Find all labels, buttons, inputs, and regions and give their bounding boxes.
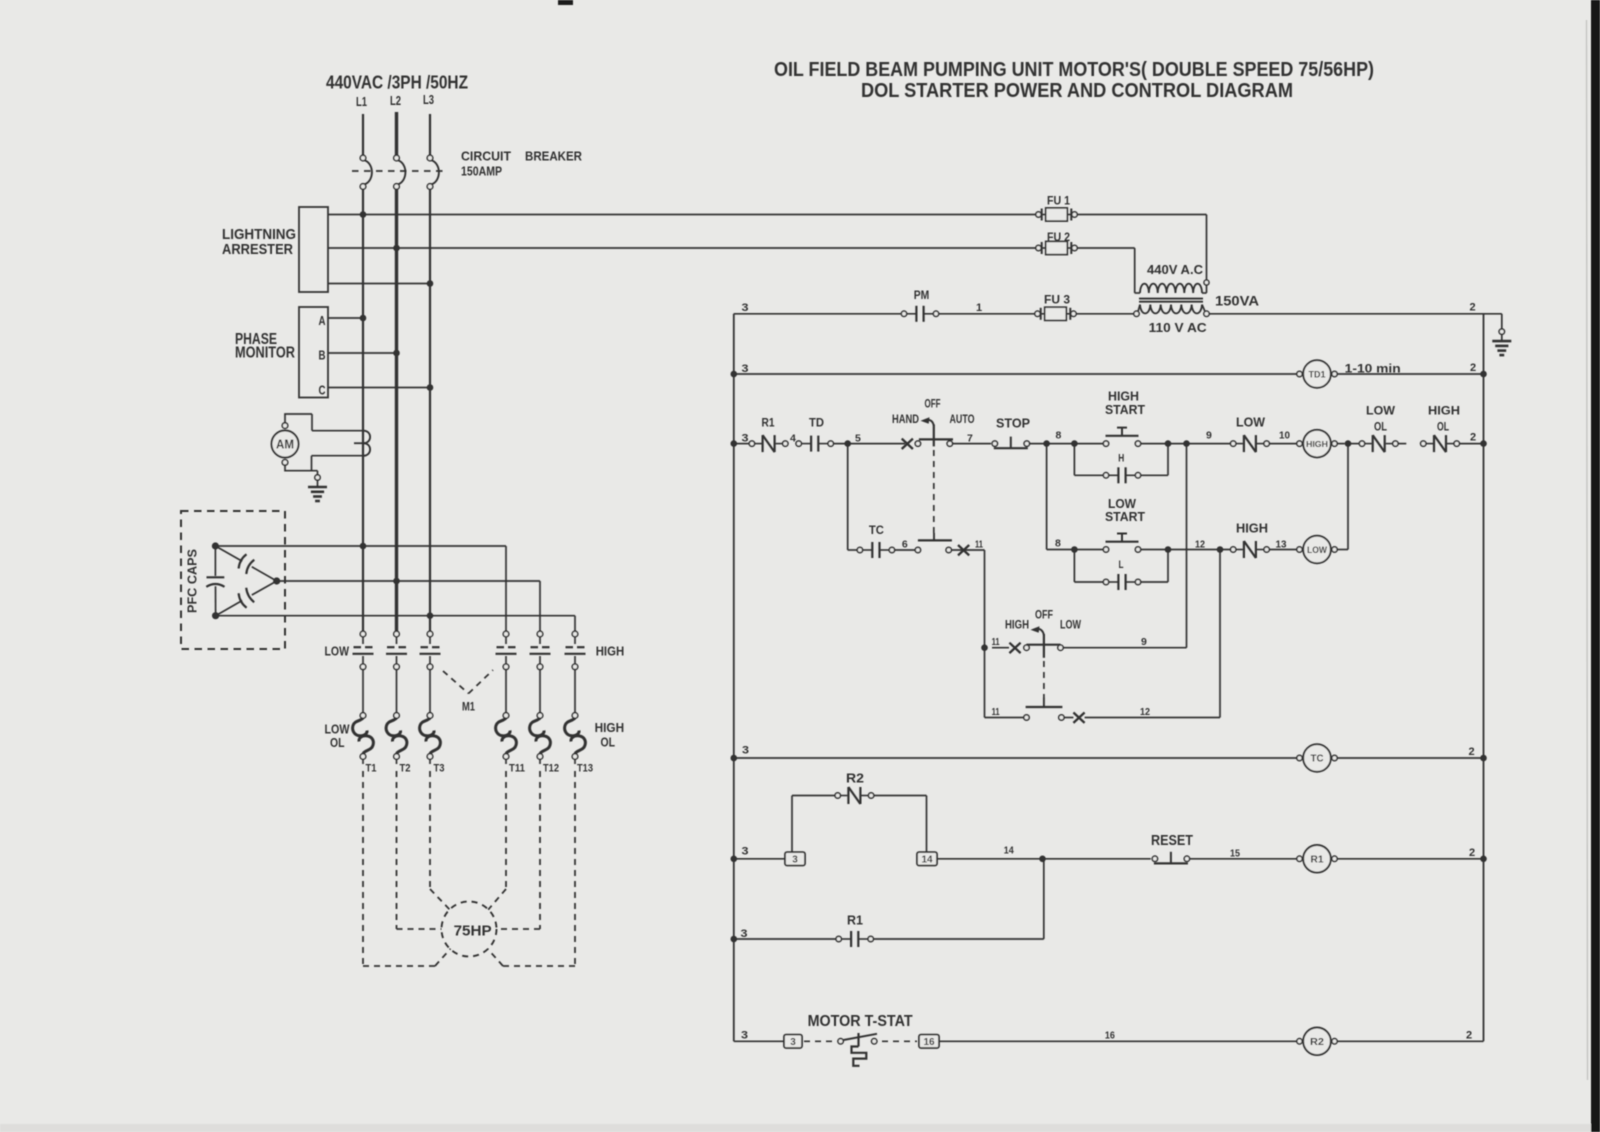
junction lower selector node 11 xyxy=(981,636,1000,651)
svg-text:2: 2 xyxy=(1466,1030,1472,1042)
svg-text:75HP: 75HP xyxy=(454,922,492,939)
wire FU3 to transformer secondary xyxy=(1076,313,1134,315)
thermostat contact xyxy=(838,1033,877,1066)
wire selector low row to node 12 riser xyxy=(1064,550,1220,719)
label 3 main rung xyxy=(731,433,749,447)
lightning arrester box xyxy=(299,207,328,292)
contact TD NO xyxy=(796,416,833,452)
svg-text:FU 3: FU 3 xyxy=(1044,293,1070,307)
svg-text:2: 2 xyxy=(1469,746,1475,758)
wire phase L3 incoming xyxy=(429,114,431,155)
svg-text:PM: PM xyxy=(914,288,930,302)
contact R2 NC xyxy=(835,771,874,805)
wire arrester line 3 to L3 xyxy=(328,283,430,285)
phase monitor pin B xyxy=(319,348,400,363)
svg-text:2: 2 xyxy=(1470,362,1476,374)
wire dashed box3 to t-stat xyxy=(804,1040,833,1042)
label L2 xyxy=(390,93,401,108)
label 3 rung R1 xyxy=(731,846,749,863)
wire TC rung corner down xyxy=(951,550,984,648)
svg-text:DOL STARTER POWER AND CONTROL: DOL STARTER POWER AND CONTROL DIAGRAM xyxy=(861,79,1293,102)
junction PFC top bus at L1 xyxy=(360,543,367,550)
pushbutton RESET xyxy=(1151,832,1193,864)
wire drop from node 8 to low start rung xyxy=(1047,444,1104,553)
wire selector to STOP node 7 xyxy=(947,433,991,447)
wire rail corner to box 3 xyxy=(734,1040,784,1042)
junction PFC mid bus at L2 xyxy=(393,578,400,585)
terminal box 16 xyxy=(919,1035,939,1049)
wire phase L1 to contactor xyxy=(362,189,364,631)
svg-text:ARRESTER: ARRESTER xyxy=(222,241,293,258)
wire FU2 to transformer primary left xyxy=(1077,248,1135,293)
coil R1 xyxy=(1297,845,1337,873)
label 110 V AC xyxy=(1149,321,1207,335)
wire motor lead T1 xyxy=(363,771,451,966)
svg-text:2: 2 xyxy=(1470,302,1476,314)
circuit breaker pole 1 xyxy=(360,155,372,189)
label T2 xyxy=(400,763,411,775)
label 150VA xyxy=(1215,294,1259,309)
contact H NO xyxy=(1103,453,1140,484)
svg-text:HIGH: HIGH xyxy=(1236,521,1268,536)
label LIGHTNING ARRESTER xyxy=(222,226,296,258)
selector contact X low row xyxy=(1073,713,1084,723)
svg-text:440V A.C: 440V A.C xyxy=(1147,263,1203,277)
svg-text:3: 3 xyxy=(742,745,749,757)
contact L NO xyxy=(1103,559,1140,590)
selector contact X node 11 xyxy=(958,539,983,556)
label 1-10 min xyxy=(1345,362,1401,376)
wire motor lead T2 xyxy=(397,771,442,929)
wire R2 branch left riser xyxy=(792,796,835,853)
wire HIGH OL to right rail node 2 xyxy=(1459,432,1486,447)
phase monitor box xyxy=(299,307,328,398)
wire PFC mid bus to column 5 xyxy=(277,581,540,631)
contactor M1 dashed linkage xyxy=(443,670,493,694)
capacitor PFC upper diagonal xyxy=(215,546,276,581)
terminal box 3 xyxy=(785,852,805,866)
contact R1 NC xyxy=(749,416,788,453)
wire R2 coil to right rail xyxy=(1337,1030,1483,1042)
svg-text:12: 12 xyxy=(1140,706,1150,718)
selector low row T-bar xyxy=(985,698,1065,721)
wire between OL contacts xyxy=(1398,443,1406,445)
svg-text:R1: R1 xyxy=(762,416,775,430)
svg-text:R1: R1 xyxy=(1311,854,1324,865)
svg-text:14: 14 xyxy=(1004,845,1014,857)
wire FU1 to transformer primary right xyxy=(1077,215,1206,281)
PFC CAPS dashed box xyxy=(181,511,285,649)
wire rail to PM contact xyxy=(734,313,901,315)
label 3 rung R1 contact xyxy=(731,928,748,942)
wire phase L2 to contactor xyxy=(395,189,398,631)
label CIRCUIT BREAKER 150AMP xyxy=(461,149,583,179)
node PFC top xyxy=(212,542,219,549)
label L3 xyxy=(423,92,434,107)
label 3 rung TD1 xyxy=(731,363,749,377)
contact HIGH NC interlock xyxy=(1231,521,1270,559)
svg-text:9: 9 xyxy=(1206,430,1212,442)
wire HIGH coil to LOW OL xyxy=(1337,440,1359,447)
right control rail xyxy=(1483,314,1485,1042)
wire phase L1 incoming xyxy=(362,114,364,155)
svg-text:10: 10 xyxy=(1279,430,1290,442)
label 2 rung TD1 xyxy=(1470,362,1487,377)
fuse FU3 xyxy=(1035,293,1076,321)
terminal box 3 bottom xyxy=(784,1035,802,1049)
wire rail to terminal box 3 xyxy=(734,858,785,860)
label M1 xyxy=(462,700,475,714)
label L1 xyxy=(356,94,367,109)
svg-text:2: 2 xyxy=(1470,432,1476,444)
svg-text:1: 1 xyxy=(976,302,982,314)
svg-text:440VAC /3PH /50HZ: 440VAC /3PH /50HZ xyxy=(326,73,468,93)
label T11 xyxy=(509,763,525,775)
wire rail to TD1 coil xyxy=(734,373,1300,375)
label 4 xyxy=(790,433,796,445)
label HAND OFF AUTO xyxy=(892,399,975,427)
svg-text:TC: TC xyxy=(869,523,884,537)
contact LOW NC interlock xyxy=(1231,415,1270,453)
wire arrester line 1 to FU1 xyxy=(328,214,1036,216)
svg-text:TC: TC xyxy=(1311,754,1324,765)
ammeter AM xyxy=(272,423,299,465)
svg-text:HIGH: HIGH xyxy=(1005,620,1029,632)
svg-text:AM: AM xyxy=(276,438,294,452)
svg-text:C: C xyxy=(319,383,326,398)
svg-text:8: 8 xyxy=(1055,538,1061,550)
svg-text:LOW: LOW xyxy=(1366,404,1396,418)
coil R2 xyxy=(1297,1028,1337,1056)
svg-text:T3: T3 xyxy=(434,763,445,775)
svg-text:START: START xyxy=(1105,402,1145,417)
svg-text:LOW: LOW xyxy=(1307,545,1327,555)
label T3 xyxy=(434,763,445,775)
svg-text:A: A xyxy=(319,313,326,328)
title line 2 xyxy=(861,79,1293,102)
wire PFC bottom bus to column 6 xyxy=(216,616,575,632)
svg-text:R1: R1 xyxy=(847,913,863,928)
wire node 13 to LOW coil xyxy=(1269,539,1297,551)
current transformer on L1 xyxy=(354,431,370,456)
svg-text:3: 3 xyxy=(742,302,749,314)
wire R1 contact rise to node 14 xyxy=(873,859,1043,939)
svg-text:MOTOR T-STAT: MOTOR T-STAT xyxy=(808,1013,913,1030)
label PFC CAPS vertical xyxy=(185,549,200,613)
label LOW contactor xyxy=(325,644,350,659)
label T12 xyxy=(543,763,559,775)
wire PM to FU3 node 1 xyxy=(939,302,1036,314)
svg-text:14: 14 xyxy=(921,855,933,866)
svg-text:11: 11 xyxy=(992,706,1000,718)
svg-text:PFC CAPS: PFC CAPS xyxy=(185,549,200,613)
wire selector high row to node 9 riser xyxy=(1063,444,1186,648)
junction PFC bottom bus at L3 xyxy=(427,612,434,619)
junction L2 line2 xyxy=(393,245,400,252)
svg-text:OL: OL xyxy=(330,735,345,750)
pushbutton HIGH START NO xyxy=(1103,389,1145,447)
contact TC NO xyxy=(857,523,894,558)
capacitor PFC lower diagonal xyxy=(216,581,277,616)
svg-text:3: 3 xyxy=(742,846,749,858)
wire motor lead T13 xyxy=(488,771,576,966)
wire arrester line 2 to FU2 xyxy=(328,247,1036,249)
svg-text:2: 2 xyxy=(1469,847,1475,859)
wire drop node 5 to TC contact xyxy=(848,444,858,550)
svg-text:LOW: LOW xyxy=(325,644,350,659)
wire motor lead T3 xyxy=(430,771,450,910)
svg-text:11: 11 xyxy=(992,636,1000,648)
svg-text:1-10 min: 1-10 min xyxy=(1345,362,1401,376)
wire rail to R1 contact xyxy=(734,443,749,445)
circuit breaker linkage dashed xyxy=(352,170,447,172)
svg-text:T13: T13 xyxy=(577,763,593,775)
svg-text:L2: L2 xyxy=(390,93,401,108)
wire LOW coil rise to HIGH coil output xyxy=(1337,444,1348,550)
svg-text:OL: OL xyxy=(1374,420,1387,434)
svg-text:8: 8 xyxy=(1056,430,1062,442)
label T1 xyxy=(366,763,377,775)
contactor pole T2 column x=396.5 xyxy=(386,631,407,764)
selector contact X high row xyxy=(992,643,1021,653)
svg-text:12: 12 xyxy=(1195,539,1205,551)
contactor pole T12 column x=540 xyxy=(530,631,551,764)
left control rail xyxy=(733,314,735,1042)
fuse FU1 xyxy=(1036,194,1077,222)
svg-text:MONITOR: MONITOR xyxy=(235,345,295,362)
label HIGH OFF LOW lower selector xyxy=(1005,610,1081,632)
wire HIGH START to node 9 xyxy=(1141,430,1231,447)
svg-text:LOW: LOW xyxy=(1060,620,1081,632)
wire rail to control ground xyxy=(1484,314,1502,329)
svg-text:16: 16 xyxy=(923,1037,935,1048)
label 440VAC /3PH /50HZ xyxy=(326,73,468,93)
transformer secondary winding 110V xyxy=(1134,305,1209,317)
svg-text:4: 4 xyxy=(790,433,796,445)
wire H branch drop xyxy=(1074,444,1103,476)
svg-text:110 V AC: 110 V AC xyxy=(1149,321,1207,335)
svg-text:OL: OL xyxy=(601,735,616,750)
svg-text:TD1: TD1 xyxy=(1309,370,1327,381)
node PFC right xyxy=(273,577,280,584)
wire CT bottom return xyxy=(312,456,364,472)
contact R1 NO xyxy=(836,913,873,948)
svg-text:STOP: STOP xyxy=(996,416,1030,431)
transformer primary winding xyxy=(1135,280,1209,293)
svg-text:7: 7 xyxy=(967,433,973,445)
svg-text:3: 3 xyxy=(742,433,749,445)
wire TD1 to right rail xyxy=(1337,373,1483,375)
label 3 rung PM xyxy=(742,302,749,314)
svg-text:R2: R2 xyxy=(1310,1037,1324,1048)
wire STOP to node 8 xyxy=(1030,430,1104,447)
wire H branch rise xyxy=(1141,444,1168,476)
svg-text:HAND: HAND xyxy=(892,414,919,426)
svg-text:15: 15 xyxy=(1230,848,1240,860)
phase monitor pin A xyxy=(319,313,367,328)
svg-text:3: 3 xyxy=(741,1030,748,1042)
svg-text:16: 16 xyxy=(1105,1030,1115,1042)
wire node 10 to HIGH coil xyxy=(1269,430,1297,444)
svg-text:CIRCUIT: CIRCUIT xyxy=(461,149,511,164)
svg-text:T2: T2 xyxy=(400,763,411,775)
capacitor PFC left xyxy=(206,546,224,616)
svg-text:AUTO: AUTO xyxy=(950,414,975,426)
svg-text:150AMP: 150AMP xyxy=(461,164,502,179)
wire rail to R1 contact xyxy=(734,938,836,940)
contact PM xyxy=(901,288,938,322)
coil LOW xyxy=(1297,536,1337,564)
svg-text:5: 5 xyxy=(855,433,861,445)
coil HIGH xyxy=(1297,430,1337,458)
svg-text:HIGH: HIGH xyxy=(595,720,625,735)
wire TD to node 5 xyxy=(833,433,905,447)
svg-text:HIGH: HIGH xyxy=(1306,439,1328,449)
svg-text:R2: R2 xyxy=(846,771,864,786)
wire LOW START to node 12 xyxy=(1141,539,1231,553)
svg-text:L3: L3 xyxy=(423,92,434,107)
svg-text:START: START xyxy=(1105,509,1145,524)
wire motor lead T12 xyxy=(497,771,541,929)
wire R2 branch right riser xyxy=(874,796,927,853)
label 440V A.C xyxy=(1147,263,1203,277)
terminal box 14 xyxy=(917,852,937,866)
svg-text:T11: T11 xyxy=(509,763,525,775)
svg-text:LOW: LOW xyxy=(1236,415,1266,430)
wire L branch rise xyxy=(1141,550,1168,583)
title line 1 xyxy=(774,58,1374,81)
svg-text:HIGH: HIGH xyxy=(596,644,625,659)
svg-text:OFF: OFF xyxy=(925,399,941,411)
label 3 rung R2 xyxy=(741,1030,748,1042)
wire phase L3 to contactor xyxy=(429,189,431,631)
ground control transformer xyxy=(1492,329,1511,355)
svg-text:L1: L1 xyxy=(356,94,367,109)
contactor pole T3 column x=430 xyxy=(420,631,441,764)
selector T-bar auto position xyxy=(915,533,952,553)
label HIGH OL xyxy=(595,720,625,750)
wire TC coil to right rail xyxy=(1337,746,1487,761)
timer coil TD1 xyxy=(1297,360,1337,388)
selector contact HAND X xyxy=(902,439,921,449)
svg-text:9: 9 xyxy=(1141,636,1147,648)
pushbutton LOW START NO xyxy=(1103,496,1145,552)
junction L3 line3 xyxy=(427,280,434,287)
pushbutton STOP NC xyxy=(992,416,1030,449)
wire R1 coil to right rail xyxy=(1337,847,1487,862)
transformer core xyxy=(1139,299,1203,302)
svg-text:OIL FIELD BEAM PUMPING UNIT MO: OIL FIELD BEAM PUMPING UNIT MOTOR'S( DOU… xyxy=(774,58,1374,81)
svg-text:M1: M1 xyxy=(462,700,475,714)
svg-text:T1: T1 xyxy=(366,763,377,775)
contact LOW OL NC xyxy=(1359,404,1398,453)
svg-text:150VA: 150VA xyxy=(1215,294,1259,309)
fuse FU2 xyxy=(1036,230,1077,255)
wire secondary to right rail node 2 xyxy=(1209,302,1483,314)
svg-text:HIGH: HIGH xyxy=(1428,404,1460,418)
svg-text:L: L xyxy=(1119,559,1124,571)
node PFC bottom xyxy=(212,612,219,619)
label PHASE MONITOR xyxy=(235,331,295,362)
svg-text:B: B xyxy=(319,348,326,363)
junction L1 line1 xyxy=(360,211,367,218)
svg-text:OFF: OFF xyxy=(1035,610,1053,622)
motor 75HP xyxy=(442,902,497,957)
selector HAND-OFF-AUTO mechanism xyxy=(919,417,953,533)
svg-text:3: 3 xyxy=(790,1037,796,1048)
wire ammeter bottom to ground xyxy=(285,465,318,475)
wire L branch drop xyxy=(1074,550,1103,583)
label MOTOR T-STAT xyxy=(808,1013,913,1030)
label LOW OL xyxy=(325,722,351,751)
wire lower selector left vertical xyxy=(984,648,986,718)
label HIGH contactor xyxy=(596,644,625,659)
wire phase L2 incoming xyxy=(395,112,398,155)
circuit breaker pole 2 xyxy=(394,155,406,189)
wire dashed t-stat to box16 xyxy=(882,1040,917,1042)
contactor pole T13 column x=575 xyxy=(565,631,586,764)
coil TC xyxy=(1297,744,1337,772)
svg-text:FU 1: FU 1 xyxy=(1047,194,1070,208)
wire ammeter top to CT xyxy=(284,414,363,431)
svg-text:13: 13 xyxy=(1276,539,1287,551)
svg-text:6: 6 xyxy=(902,539,908,551)
wire RESET to R1 coil xyxy=(1190,848,1297,860)
svg-text:11: 11 xyxy=(975,539,983,551)
contactor pole T1 column x=363 xyxy=(353,631,374,764)
wire box 14 to RESET xyxy=(937,845,1151,863)
wire PFC top bus to column 4 xyxy=(215,546,506,631)
wire TC contact to selector node 6 xyxy=(895,539,916,551)
svg-text:T12: T12 xyxy=(543,763,559,775)
label 3 rung TC xyxy=(731,745,750,762)
svg-text:BREAKER: BREAKER xyxy=(525,149,583,164)
circuit breaker pole 3 xyxy=(427,155,439,189)
svg-text:OL: OL xyxy=(1437,420,1449,434)
wire motor lead T11 xyxy=(488,771,506,910)
contact HIGH OL NC xyxy=(1421,404,1460,453)
label T13 xyxy=(577,763,593,775)
svg-text:3: 3 xyxy=(792,855,798,866)
contactor pole T11 column x=506 xyxy=(496,631,517,764)
wire box16 to R2 coil xyxy=(939,1030,1297,1042)
ground ammeter xyxy=(308,475,327,501)
phase monitor pin C xyxy=(319,383,434,398)
lower selector HIGH-OFF-LOW mechanism xyxy=(1024,626,1063,697)
wire rail to TC coil xyxy=(734,757,1297,759)
svg-text:RESET: RESET xyxy=(1151,832,1193,849)
svg-text:H: H xyxy=(1118,453,1124,465)
svg-text:TD: TD xyxy=(809,416,824,430)
